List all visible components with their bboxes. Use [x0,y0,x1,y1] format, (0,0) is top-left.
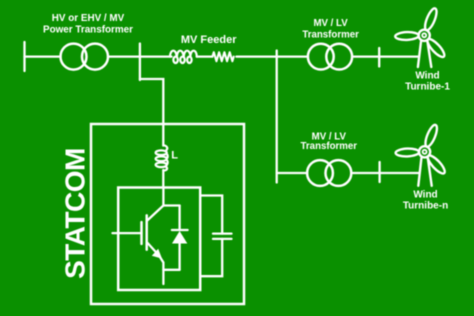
transformer MV/LV row1 circle 2 [326,44,352,70]
blade left t2 [395,148,419,157]
svg-text:MV / LV: MV / LV [313,18,348,29]
diode top wire [178,206,180,231]
svg-text:Turnibe-n: Turnibe-n [403,201,448,212]
hub outer t1 [419,30,430,41]
tower leg left t1 [418,42,421,68]
converter inner box [118,188,200,291]
inductor L vertical coil [156,145,168,170]
node tick branch 2 [276,51,278,57]
IGBT collector wire [162,188,164,206]
blade down t2 [425,153,447,175]
blade up t2 [423,123,439,148]
wire branch 2 vertical [276,57,278,183]
blade down t1 [425,37,447,59]
wire collector-diode link [163,204,179,206]
transformer HV/MV circle 2 [82,44,108,70]
IGBT emitter wire [159,256,163,285]
tower leg right t2 [428,158,432,186]
svg-text:HV or EHV / MV: HV or EHV / MV [52,13,125,24]
diode triangle [172,231,187,244]
bus tick left [23,42,25,71]
wire row2 to turbine [351,172,419,174]
svg-text:Power Transformer: Power Transformer [43,25,133,36]
wire main bus segment 1 [25,55,61,57]
bus tick row1 [378,48,380,67]
capacitor plate top [213,232,232,234]
capacitor plate bottom [213,238,232,240]
hub inner t1 [422,33,426,37]
svg-text:Transformer: Transformer [302,29,359,40]
hub inner t2 [423,150,427,154]
IGBT gate bar [140,222,143,244]
transformer MV/LV row2 circle 1 [307,160,333,186]
node tick at branch 1 [139,44,141,81]
wire emitter-diode link [163,269,179,271]
tower leg right t1 [427,42,431,68]
inductor MV feeder [170,51,197,63]
IGBT collector diagonal [147,206,164,222]
diode cathode bar [172,229,188,231]
wind turbine 1 [395,7,447,67]
capacitor bottom wire [200,239,222,276]
wire coil to inner box [162,170,164,188]
IGBT emitter diagonal [147,242,159,256]
svg-text:STATCOM: STATCOM [60,148,91,279]
wire row2 horizontal [277,172,308,174]
svg-text:Wind: Wind [413,190,437,201]
tower leg left t2 [418,158,421,186]
svg-text:MV Feeder: MV Feeder [181,34,237,46]
wire jog to STATCOM [140,79,163,146]
IGBT emitter arrow [152,249,162,259]
capacitor top wire [200,196,222,234]
IGBT gate lead [113,232,142,234]
wire row1 to turbine [352,55,418,57]
transformer MV/LV row2 circle 2 [326,160,352,186]
svg-text:Transformer: Transformer [301,141,358,152]
blade left t1 [395,32,419,41]
transformer MV/LV row1 circle 1 [308,44,334,70]
svg-text:L: L [171,150,178,162]
hub outer t2 [419,146,430,157]
IGBT body bar [145,215,148,249]
wire main bus segment 2 [108,55,172,57]
wire between inductor and resistor [197,55,213,57]
transformer HV/MV circle 1 [61,44,87,70]
resistor MV feeder zigzag [212,52,233,61]
diode bottom wire [178,244,180,270]
wire main bus segment 3 [236,55,308,57]
blade up t1 [423,7,439,32]
wind turbine 2 [395,123,447,185]
STATCOM box [91,124,244,304]
bus tick row2 [378,162,380,182]
svg-text:Wind: Wind [415,71,439,82]
svg-text:Turnibe-1: Turnibe-1 [405,82,450,93]
